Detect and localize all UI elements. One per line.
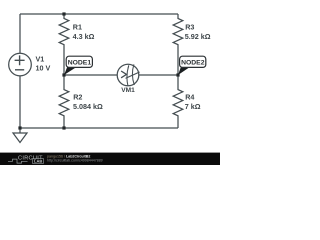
svg-text:VM1: VM1 (121, 87, 135, 94)
svg-text:R3: R3 (185, 23, 194, 32)
svg-text:5.084 kΩ: 5.084 kΩ (73, 102, 103, 111)
wire bottom horizontal (20, 127, 178, 129)
wire left vertical lower (19, 76, 21, 128)
svg-text:NODE1: NODE1 (68, 60, 92, 67)
wire left vertical upper (19, 14, 21, 53)
svg-text:http://circuitlab.com/c4998444: http://circuitlab.com/c4998444788t/ (47, 159, 103, 163)
wire top horizontal (20, 13, 178, 15)
svg-text:7 kΩ: 7 kΩ (185, 102, 201, 111)
resistor R4 (173, 75, 183, 128)
junction NODE2 (176, 73, 179, 76)
ground (13, 128, 27, 143)
junction top (62, 12, 65, 15)
svg-text:10 V: 10 V (36, 64, 51, 73)
voltmeter VM1 (117, 64, 139, 86)
logo waveform (8, 159, 28, 163)
junction bottom R2 (62, 126, 65, 129)
watermark bar (0, 153, 220, 165)
svg-text:NODE2: NODE2 (181, 60, 205, 67)
junction NODE1 (62, 73, 65, 76)
svg-text:V1: V1 (36, 55, 45, 64)
wire voltmeter to NODE2 (139, 74, 178, 76)
voltage source V1 (9, 53, 32, 76)
resistor R2 (59, 75, 69, 128)
node NODE1 flag (64, 56, 92, 75)
resistor R1 (59, 14, 69, 75)
logo LAB (33, 159, 44, 164)
svg-text:LAB: LAB (34, 159, 42, 164)
node NODE2 flag (178, 56, 206, 75)
resistor R3 (173, 14, 183, 75)
svg-text:4.3 kΩ: 4.3 kΩ (73, 32, 95, 41)
svg-text:5.92 kΩ: 5.92 kΩ (185, 32, 211, 41)
svg-text:R2: R2 (73, 93, 82, 102)
svg-text:R4: R4 (185, 93, 194, 102)
svg-text:R1: R1 (73, 23, 82, 32)
wire NODE1 to voltmeter (64, 74, 117, 76)
junction bottom left (18, 126, 21, 129)
